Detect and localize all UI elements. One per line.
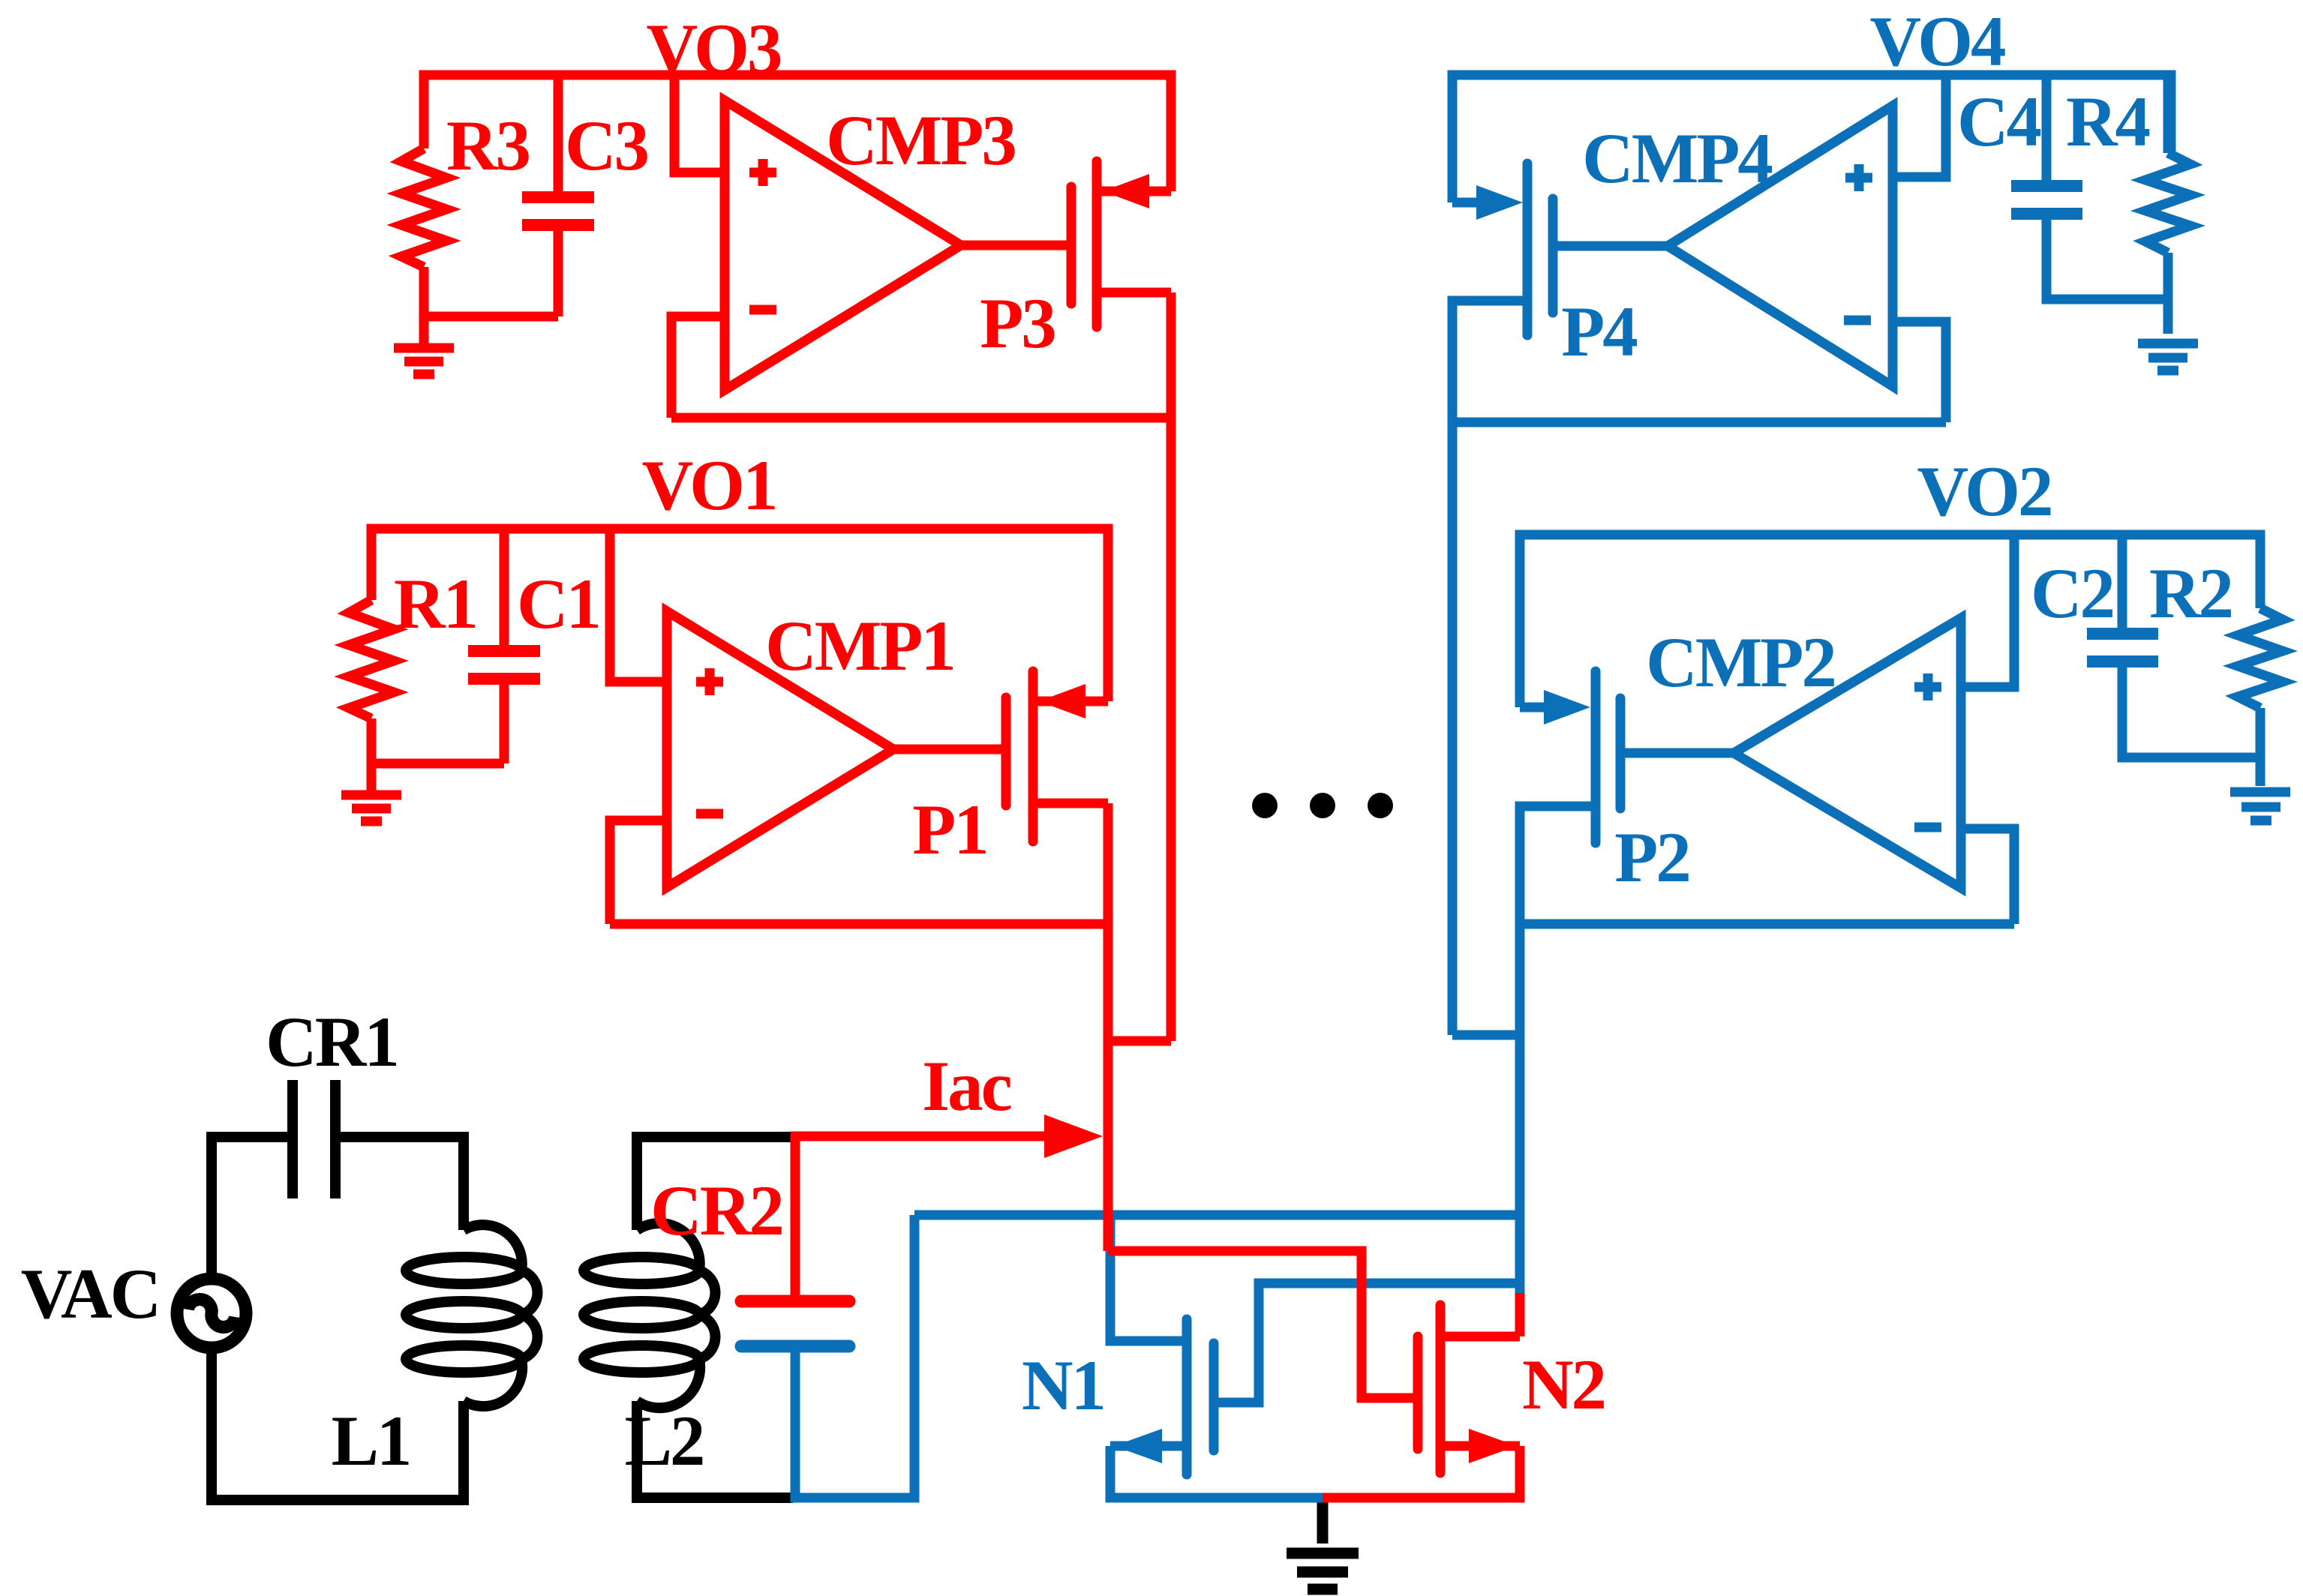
- svg-text:VO1: VO1: [641, 445, 776, 525]
- svg-text:L1: L1: [332, 1401, 410, 1480]
- svg-text:CMP4: CMP4: [1582, 118, 1772, 198]
- svg-text:VO3: VO3: [646, 9, 781, 88]
- svg-text:P3: P3: [980, 283, 1055, 363]
- svg-text:R2: R2: [2149, 553, 2232, 633]
- svg-text:CMP1: CMP1: [765, 606, 954, 685]
- svg-text:CR2: CR2: [650, 1171, 782, 1250]
- svg-text:R4: R4: [2066, 82, 2150, 161]
- svg-text:VO4: VO4: [1869, 1, 2005, 81]
- svg-text:R1: R1: [394, 564, 476, 643]
- svg-text:Iac: Iac: [922, 1046, 1010, 1126]
- svg-text:VO2: VO2: [1917, 451, 2051, 531]
- svg-text:C1: C1: [517, 564, 599, 643]
- svg-text:L2: L2: [625, 1401, 704, 1480]
- svg-text:P2: P2: [1614, 817, 1689, 897]
- svg-text:N2: N2: [1522, 1345, 1605, 1424]
- svg-text:C3: C3: [565, 106, 648, 185]
- svg-text:C4: C4: [1957, 82, 2041, 161]
- svg-text:R3: R3: [446, 106, 530, 185]
- svg-text:C2: C2: [2031, 553, 2113, 633]
- svg-text:P1: P1: [912, 790, 987, 869]
- svg-text:CMP3: CMP3: [826, 100, 1015, 180]
- svg-text:CMP2: CMP2: [1646, 622, 1835, 702]
- svg-text:N1: N1: [1022, 1345, 1104, 1425]
- svg-text:CR1: CR1: [266, 1002, 398, 1081]
- svg-text:P4: P4: [1561, 292, 1637, 371]
- svg-text:VAC: VAC: [21, 1254, 160, 1333]
